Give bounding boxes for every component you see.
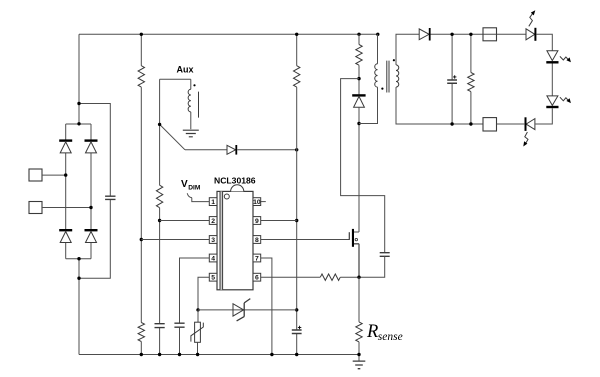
node R6 bottom junction	[469, 122, 472, 125]
wire LED1 to corner	[536, 34, 552, 50]
wire secondary bottom	[396, 87, 483, 124]
varistor RV1	[195, 322, 201, 342]
node RV1 bottom rail junction	[196, 353, 199, 356]
node pin9 junction	[295, 219, 298, 222]
U1 pin 2 box	[209, 217, 217, 225]
wire Vdim probe hook	[187, 193, 192, 198]
output terminal J3	[483, 28, 497, 41]
node D5-Vcc junction	[295, 148, 298, 151]
wire pin5 lead	[198, 277, 209, 310]
wire Rsense to ground	[358, 342, 360, 361]
U1 pin 9 box	[253, 217, 261, 225]
svg-text:DIM: DIM	[188, 185, 201, 192]
node C5 bottom rail junction	[295, 353, 298, 356]
wire varistor bottom	[197, 342, 199, 354]
U1 notch	[231, 185, 244, 192]
transistor Q1 drain lead	[354, 231, 359, 233]
node pin2 wire junction	[158, 219, 161, 222]
wire aux loop top	[160, 79, 191, 89]
resistor R3 (Vcc upper)	[294, 66, 300, 87]
wire pin1 lead	[192, 198, 210, 202]
U1 pin 7 box	[253, 254, 261, 262]
bridge diode D4	[85, 229, 98, 231]
capacitor C2	[155, 324, 165, 328]
wire top rail (rectified DC+)	[79, 33, 378, 35]
node aux phase dot	[193, 84, 195, 86]
LED LED2	[547, 51, 558, 61]
node T1 secondary phase dot	[393, 59, 395, 61]
capacitor C6 (snubber)	[380, 253, 390, 257]
svg-text:4: 4	[211, 255, 215, 262]
wire pin6 lead	[261, 276, 321, 278]
wire clamp return	[341, 79, 385, 253]
wire bottom rail (primary GND)	[79, 354, 359, 356]
wire switch diagonal	[160, 124, 185, 149]
U1 pin 10 box	[253, 198, 261, 206]
svg-text:1: 1	[211, 199, 215, 206]
U1 pin 6 box	[253, 273, 261, 281]
wire left column top	[78, 34, 80, 124]
node snubber top rail junction	[357, 33, 360, 36]
wire aux diode right	[237, 149, 297, 151]
LED3 emission arrow	[560, 97, 568, 101]
wire pin8 lead (gate drive)	[261, 239, 350, 241]
node T1 primary phase dot	[381, 88, 383, 90]
label C5 plus sign	[298, 326, 301, 329]
diode D7 (clamp)	[352, 94, 365, 96]
svg-text:8: 8	[255, 237, 259, 244]
node R1 top rail junction	[140, 33, 143, 36]
node TVS wire junction right	[295, 308, 298, 311]
svg-text:7: 7	[255, 255, 259, 262]
U1 pin 4 box	[209, 254, 217, 262]
wire pin4 lead	[180, 258, 210, 323]
wire aux diode left	[185, 149, 227, 151]
capacitor C1 (bulk)	[105, 196, 115, 199]
ground aux	[183, 130, 199, 137]
U1 pin 1 box	[209, 198, 217, 206]
node bridge DC+ junction	[77, 122, 80, 125]
svg-text:NCL30186: NCL30186	[214, 176, 256, 186]
svg-text:9: 9	[255, 218, 259, 225]
wire R4 to clamp node	[358, 65, 360, 94]
LED1 emission arrow	[529, 13, 533, 26]
capacitor C7 (output) branch	[451, 34, 453, 124]
node primary top junction	[376, 33, 379, 36]
output terminal J4	[483, 118, 497, 131]
label C7 plus sign	[453, 75, 456, 78]
resistor R6	[468, 73, 474, 92]
wire R7 to source node	[340, 276, 359, 278]
node C2 bottom rail junction	[158, 353, 161, 356]
wire snubber stem top	[358, 34, 360, 44]
wire aux loop left	[159, 79, 161, 354]
wire C6 bottom	[359, 256, 385, 277]
transistor Q1 source lead	[354, 244, 359, 277]
wire primary bottom	[359, 87, 378, 123]
resistor Rsense	[356, 322, 362, 342]
node source junction	[357, 276, 360, 279]
svg-text:3: 3	[211, 237, 215, 244]
capacitor C5 (Vcc, polarized)	[292, 330, 302, 334]
wire bulk cap branch top	[79, 104, 110, 197]
U1 pin 8 box	[253, 236, 261, 244]
wire J3 to LED1	[497, 33, 527, 35]
wire primary top stem	[377, 34, 379, 64]
resistor R4 (clamp)	[356, 45, 362, 66]
wire pin9 lead	[261, 220, 297, 222]
node primary-drain junction	[357, 122, 360, 125]
LED LED4	[526, 119, 535, 130]
wire J1 to bridge	[42, 174, 66, 176]
LED4 emission arrow	[525, 132, 528, 144]
resistor R7 (CS)	[320, 274, 340, 280]
LED2 emission arrow	[560, 56, 568, 60]
node Rsense bottom rail junction	[357, 353, 360, 356]
node pin3 wire junction	[140, 238, 143, 241]
node C7 top junction	[450, 33, 453, 36]
wire TVS horizontal	[198, 309, 297, 311]
wire pin2 lead	[160, 220, 210, 222]
AC input terminal J2	[29, 202, 42, 214]
resistor R5 (lower divider)	[138, 323, 144, 342]
wire C3 bottom	[179, 327, 181, 354]
wire Vcc branch	[296, 34, 298, 354]
node R6 top junction	[469, 33, 472, 36]
resistor R6 (load) branch	[470, 34, 472, 124]
wire LED2 to LED3	[551, 64, 553, 96]
svg-text:Aux: Aux	[177, 65, 194, 75]
transformer T1 core	[387, 61, 389, 93]
svg-text:sense: sense	[378, 331, 403, 343]
inductor Aux winding	[188, 89, 191, 112]
wire source to Rsense	[358, 277, 360, 322]
node C3 bottom rail junction	[178, 353, 181, 356]
wire pin7 lead	[261, 258, 272, 355]
op-amp U1 NCL30186 body	[217, 191, 253, 289]
node clamp junction	[357, 77, 360, 80]
svg-text:2: 2	[211, 218, 215, 225]
AC input terminal J1	[29, 169, 42, 181]
transformer T1 primary winding	[375, 64, 378, 87]
U1 pin 3 box	[209, 236, 217, 244]
svg-text:10: 10	[253, 199, 261, 206]
LED LED3	[547, 96, 558, 106]
node bridge DC- junction	[77, 257, 80, 260]
wire D7 to drain	[358, 107, 360, 232]
ground main	[353, 361, 366, 369]
bridge diode D1	[59, 139, 72, 141]
node bulk cap bottom junction	[77, 277, 80, 280]
U1 left stripe	[220, 191, 223, 289]
wire pin10 stub	[261, 201, 266, 203]
wire bridge top bar	[66, 123, 91, 125]
wire secondary top rail	[431, 33, 497, 35]
diode D8 (output rectifier)	[419, 29, 429, 40]
node C7 bottom junction	[450, 122, 453, 125]
resistor R2 (aux branch)	[156, 185, 162, 208]
transistor Q1 body contact	[355, 238, 357, 240]
wire bulk cap branch bottom	[79, 199, 110, 278]
U1 pin1 indicator circle	[224, 194, 229, 199]
svg-text:6: 6	[255, 275, 259, 282]
svg-text:R: R	[366, 322, 378, 342]
node pin7 bottom rail junction	[270, 353, 273, 356]
capacitor C3 (pin4)	[174, 323, 184, 327]
node bulk cap top junction	[77, 102, 80, 105]
node J2-bridge junction	[89, 206, 92, 209]
wire bridge right branch	[90, 124, 92, 259]
wire varistor top	[197, 310, 199, 322]
node R3 top rail junction	[295, 33, 298, 36]
wire bridge left branch	[65, 124, 67, 259]
wire LED4 to J4	[497, 123, 526, 125]
wire pin3 lead	[141, 239, 209, 241]
wire aux core bar	[198, 92, 200, 118]
diode D5 (aux rectifier)	[227, 145, 236, 154]
LED LED1	[526, 29, 535, 40]
wire R1 branch	[140, 34, 142, 354]
wire left column bottom	[78, 259, 80, 355]
node R5 bottom rail junction	[140, 353, 143, 356]
U1 pin 5 box	[209, 273, 217, 281]
node pin5/TVS junction	[196, 308, 199, 311]
wire LED3 to corner	[535, 108, 552, 124]
capacitor C7 plates	[447, 80, 457, 83]
svg-text:V: V	[181, 179, 188, 190]
bridge diode D2	[85, 139, 98, 141]
wire secondary top stem	[396, 34, 419, 65]
resistor R1 (startup upper)	[138, 66, 144, 87]
wire J2 to bridge	[42, 207, 91, 209]
transistor Q1 gate bracket	[348, 232, 350, 240]
wire aux coil bottom	[190, 112, 192, 129]
node switch junction	[158, 123, 161, 126]
svg-text:5: 5	[211, 275, 215, 282]
wire bridge bottom bar	[66, 258, 91, 260]
zener TVS D6	[233, 304, 244, 316]
transistor Q1 channel bar	[352, 229, 354, 247]
node J1-bridge junction	[64, 173, 67, 176]
bridge diode D3	[59, 229, 72, 231]
transformer T1 secondary winding	[396, 65, 399, 87]
